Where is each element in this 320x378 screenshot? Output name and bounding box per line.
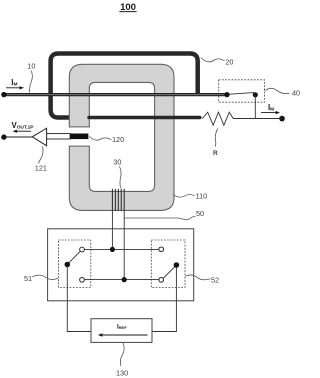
svg-text:IREF: IREF [117,324,127,330]
svg-text:130: 130 [116,369,128,378]
svg-text:10: 10 [27,62,35,71]
svg-text:121: 121 [35,163,47,172]
svg-text:40: 40 [292,89,300,98]
svg-text:52: 52 [211,275,219,284]
svg-text:120: 120 [112,135,124,144]
svg-text:51: 51 [24,274,32,283]
svg-text:IM: IM [11,78,17,88]
svg-text:20: 20 [225,57,233,66]
svg-text:110: 110 [196,192,208,201]
svg-text:R: R [213,150,218,157]
svg-text:30: 30 [113,158,121,167]
svg-text:50: 50 [196,209,204,218]
svg-text:IM: IM [268,103,274,113]
svg-text:VOUT,1P: VOUT,1P [12,121,35,131]
